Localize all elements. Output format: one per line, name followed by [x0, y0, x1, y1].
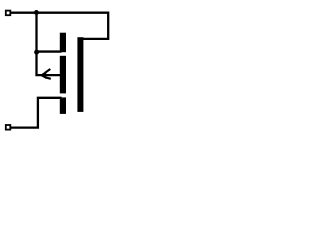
transistor Q1 gate bar — [77, 37, 83, 112]
background — [0, 0, 122, 148]
terminal T1 (top-left open square) — [6, 11, 11, 16]
node junction J1 — [34, 10, 39, 15]
transistor Q1 bulk arrow (points left) — [40, 69, 51, 79]
node junction J2 — [34, 50, 39, 55]
wire: source lead left, down, to T2 — [11, 98, 62, 128]
terminal T2 (bottom-left open square) — [6, 125, 11, 130]
transistor Q1 channel segment (bulk, middle) — [60, 56, 66, 94]
wire: top net from T1 right, down right side, to gate — [11, 13, 109, 39]
transistor Q1 channel segment (drain, top) — [60, 33, 66, 53]
transistor Q1 channel segment (source, bottom) — [60, 97, 66, 114]
wire: drain lead from J2 to channel bar — [37, 50, 62, 52]
wire: left vertical from J1 down to bulk corner, then right (bulk lead) — [37, 13, 62, 75]
